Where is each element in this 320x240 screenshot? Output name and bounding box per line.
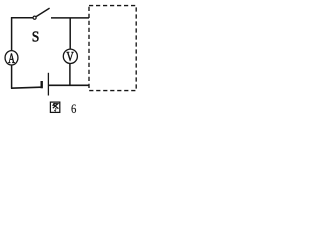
battery negative plate (short thick) xyxy=(41,81,43,88)
ammeter letter A xyxy=(8,53,14,62)
dashed box (unknown component region) xyxy=(89,6,136,91)
voltmeter letter V xyxy=(67,52,74,61)
wire: bottom-left horizontal (to battery negative) xyxy=(11,87,41,88)
wire: top horizontal right of switch to dashed box xyxy=(51,17,89,19)
caption: 图 (drawn glyph) xyxy=(50,102,59,112)
wire: bottom-right horizontal (battery positive to dashed box) xyxy=(49,84,89,86)
wire: voltmeter bottom lead (V down to bottom wire) xyxy=(69,64,71,86)
label S xyxy=(33,32,39,42)
voltmeter V1 circle xyxy=(63,49,77,63)
switch S blade (open) xyxy=(36,8,50,17)
wire: left vertical (ammeter down to bottom wire) xyxy=(11,65,13,88)
wire: voltmeter top lead (from top wire down to V) xyxy=(69,18,71,49)
caption: 6 xyxy=(71,104,76,112)
background xyxy=(0,0,148,120)
battery positive plate (long thin) xyxy=(47,73,49,96)
wire: left vertical (top wire down to ammeter) xyxy=(11,17,13,50)
switch S pivot xyxy=(33,16,36,19)
wire: top-left horizontal (battery loop top, left of switch) xyxy=(11,17,33,19)
ammeter A1 circle xyxy=(5,51,18,65)
